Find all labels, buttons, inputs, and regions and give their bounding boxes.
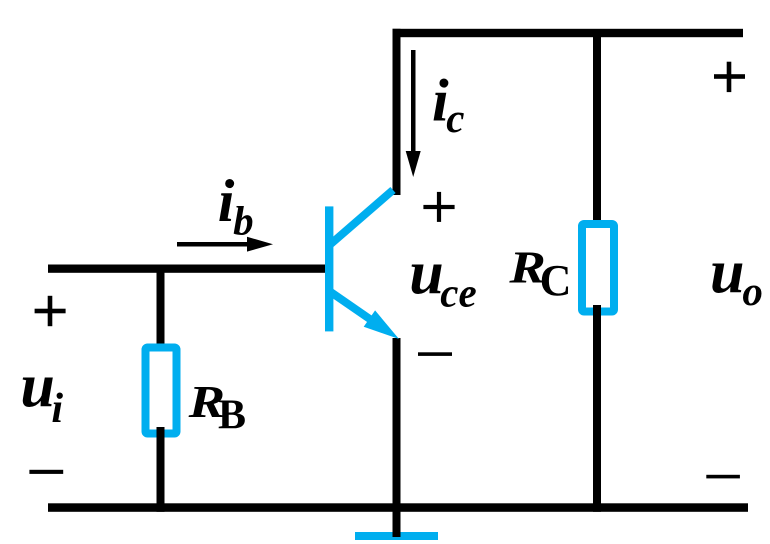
wire: top supply rail — [393, 29, 744, 37]
plus sign (input) — [35, 296, 66, 326]
label RB — [187, 376, 246, 439]
resistor RC — [582, 224, 614, 312]
svg-text:o: o — [742, 268, 763, 314]
wire: RB top — [157, 272, 165, 347]
transistor Q1 collector stroke — [329, 190, 393, 246]
svg-text:i: i — [51, 386, 63, 432]
wire: bottom rail — [48, 503, 748, 512]
svg-text:C: C — [540, 256, 572, 305]
transistor Q1 emitter stroke with arrow — [330, 292, 399, 339]
plus sign (uce) — [423, 192, 454, 222]
label ib — [218, 168, 254, 243]
svg-text:B: B — [218, 393, 246, 439]
wire: input top / base wire — [48, 265, 325, 273]
wire: RC bottom — [593, 305, 601, 512]
label uo — [710, 239, 763, 315]
label ui — [20, 352, 63, 432]
wire: RC branch top — [593, 30, 601, 228]
label ic — [432, 67, 465, 141]
svg-text:u: u — [710, 239, 744, 307]
plus sign (uo) — [714, 62, 745, 92]
arrow ib — [177, 237, 273, 252]
svg-text:b: b — [233, 198, 254, 244]
minus sign (uo) — [706, 475, 740, 479]
minus sign (uce) — [418, 352, 452, 356]
svg-text:u: u — [20, 352, 54, 420]
transistor Q1 base bar — [325, 206, 333, 331]
svg-text:ce: ce — [440, 269, 476, 315]
wire: collector drop from rail — [393, 29, 401, 195]
minus sign (input) — [29, 470, 63, 474]
svg-text:c: c — [446, 95, 464, 141]
wire: emitter drop to ground — [393, 338, 401, 537]
svg-text:u: u — [409, 240, 443, 308]
wire: RB bottom — [157, 427, 165, 512]
resistor RB — [146, 348, 177, 434]
label uce — [409, 240, 476, 316]
ground — [355, 532, 438, 540]
label RC — [508, 242, 571, 306]
arrow ic — [406, 50, 421, 177]
